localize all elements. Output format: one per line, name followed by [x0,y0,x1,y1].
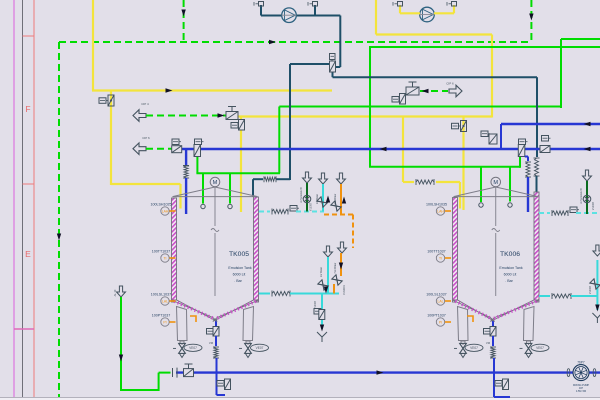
svg-text:V13007: V13007 [589,285,592,294]
svg-text:. Bar: . Bar [505,279,513,283]
svg-text:V13007: V13007 [592,201,595,210]
svg-text:100TT1037: 100TT1037 [152,250,170,254]
svg-text:CIP 6: CIP 6 [142,136,150,140]
svg-text:M: M [213,180,218,186]
svg-text:6000 Lit: 6000 Lit [504,273,517,277]
svg-text:TI: TI [439,256,442,260]
svg-text:A.Hydromix W: A.Hydromix W [580,188,583,204]
svg-text:6000 Lit: 6000 Lit [233,273,246,277]
svg-text:VE07: VE07 [189,346,197,350]
svg-text:LAL: LAL [162,299,168,303]
svg-text:VE07: VE07 [536,346,544,350]
svg-text:Hot Water: Hot Water [334,262,337,273]
svg-text:100LSL1037: 100LSL1037 [151,293,171,297]
svg-text:A.Hydromix W: A.Hydromix W [300,187,303,203]
svg-text:F: F [25,104,30,114]
svg-text:E: E [25,249,31,259]
svg-text:PI: PI [163,320,166,324]
svg-text:CIP 4: CIP 4 [141,102,149,106]
svg-text:. Bar: . Bar [234,279,242,283]
svg-text:VE07: VE07 [470,346,478,350]
svg-text:Ice Water: Ice Water [320,267,323,277]
svg-text:Emulsion Tank: Emulsion Tank [499,266,523,270]
svg-text:LAH: LAH [437,209,444,213]
svg-text:100TT1037: 100TT1037 [427,250,445,254]
svg-text:VE07: VE07 [256,346,264,350]
svg-text:V13007: V13007 [314,300,317,309]
svg-text:VM: VM [486,341,491,345]
svg-text:TI: TI [163,256,166,260]
svg-text:LAH: LAH [162,209,169,213]
svg-text:VM: VM [209,341,214,345]
svg-text:CIP 6: CIP 6 [446,82,454,86]
svg-text:Emulsion Tank: Emulsion Tank [228,266,252,270]
svg-text:100LSH1035: 100LSH1035 [426,203,447,207]
svg-text:PI: PI [439,320,442,324]
svg-text:100PT1037: 100PT1037 [427,314,446,318]
svg-text:100LSL1037: 100LSL1037 [426,293,446,297]
svg-text:100PT1037: 100PT1037 [152,314,171,318]
svg-text:76P7: 76P7 [577,361,585,365]
svg-text:100LSH1025: 100LSH1025 [151,203,172,207]
svg-text:V13007: V13007 [310,202,313,211]
svg-text:4.5M .5M: 4.5M .5M [576,390,586,393]
svg-text:AL 10: AL 10 [113,289,117,296]
svg-text:TK006: TK006 [500,251,520,258]
svg-text:V13007A: V13007A [343,285,346,295]
svg-text:TK005: TK005 [229,251,249,258]
svg-text:M: M [493,180,498,186]
svg-text:LAL: LAL [437,299,443,303]
